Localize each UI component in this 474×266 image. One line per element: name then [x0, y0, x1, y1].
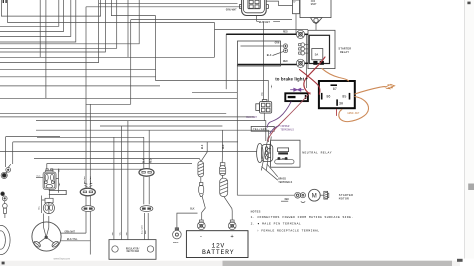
right scrollbar track — [465, 0, 474, 259]
fuse F2b capped — [220, 130, 226, 178]
black box B1 inner bar — [288, 96, 296, 98]
neutral relay coil box — [278, 148, 289, 152]
wire vertical v214 — [214, 23, 216, 58]
svg-text:86: 86 — [326, 95, 330, 99]
wire C1 feed — [86, 6, 242, 8]
wire horizontal H137 — [37, 136, 144, 138]
wire horizontal mid H130 — [36, 130, 268, 142]
svg-text:GRND: GRND — [173, 241, 179, 244]
svg-text:YEL/GRN: YEL/GRN — [253, 128, 267, 131]
black box B1 inner pin — [305, 95, 307, 99]
svg-text:BLU/WHT: BLU/WHT — [246, 116, 257, 119]
leader diagonal through connector — [261, 137, 271, 171]
svg-text:to brake light +: to brake light + — [275, 76, 308, 81]
ellipse connector EC4 — [140, 206, 153, 212]
wire EC3 to EC4 a — [143, 177, 145, 205]
neutral relay coil fill — [278, 152, 288, 154]
wire short row15 — [111, 0, 155, 16]
svg-text:GRND-OUT: GRND-OUT — [347, 112, 360, 115]
svg-text:YEL: YEL — [37, 205, 40, 210]
bottom scrollbar track — [0, 261, 460, 266]
switch loop box — [238, 41, 281, 66]
left edge black connectors — [1, 192, 7, 201]
wire horizontal H97 — [0, 97, 237, 99]
svg-text:COPPER: COPPER — [280, 125, 290, 128]
wire corner D — [0, 0, 117, 48]
wire magneto GRN/WHT — [61, 232, 86, 234]
svg-text:TERMINALS: TERMINALS — [280, 129, 294, 132]
wire left corner 2 — [13, 142, 238, 164]
svg-text:BLK/WHT: BLK/WHT — [140, 225, 143, 234]
starter motor M — [308, 189, 323, 201]
wire nest A — [1, 0, 100, 16]
wire vertical box link — [130, 20, 132, 105]
svg-text:1. CONNECTORS VIEWED FROM MATI: 1. CONNECTORS VIEWED FROM MATING SURFACE… — [251, 216, 354, 219]
connector D1 diamond below CDI — [311, 18, 323, 24]
wire cdi box down — [295, 14, 297, 34]
battery cable thick lower — [237, 64, 296, 66]
wire horizontal mid H121 — [36, 121, 266, 141]
svg-text:30: 30 — [339, 103, 343, 107]
svg-text:GRN/WHT: GRN/WHT — [65, 231, 76, 234]
wire top link to connector — [99, 2, 238, 4]
black box B1 — [285, 93, 308, 101]
label box YEL/GRN — [251, 126, 274, 131]
left edge plug SP3 — [3, 201, 8, 218]
svg-text:RED: RED — [222, 144, 225, 149]
wire horizontal H85 — [0, 85, 160, 87]
svg-text:BLK: BLK — [267, 54, 272, 57]
orange arrow scribble — [385, 84, 394, 89]
wire relay top feed — [215, 29, 309, 31]
battery terminal bolt T1 — [199, 183, 206, 221]
svg-text:RELAY: RELAY — [340, 51, 349, 54]
wire battery main vertical — [236, 65, 238, 196]
right scrollbar top dot — [467, 2, 470, 5]
wire horizontal H92 — [192, 91, 237, 93]
ring terminal RT3 motor — [295, 192, 301, 198]
starter relay diode terminals — [313, 61, 324, 65]
ring terminal RT1 — [296, 30, 304, 38]
regulator rectifier box — [109, 240, 156, 260]
wire brake feed vertical — [306, 34, 308, 88]
svg-text:NOTES: NOTES — [251, 211, 261, 214]
left edge terminal circles — [1, 164, 11, 178]
wire horizontal H163 — [47, 163, 192, 165]
red wire to neutral connector — [268, 93, 311, 142]
svg-text:BLK/WHT: BLK/WHT — [259, 20, 270, 24]
wire battery minus branch — [177, 213, 198, 228]
svg-text:RED: RED — [285, 198, 290, 201]
motor bolt — [300, 193, 305, 198]
ellipse connector EC2 — [82, 206, 95, 212]
starter relay outer box — [308, 30, 335, 68]
wire cdi link — [266, 1, 292, 5]
wire horizontal H158 — [34, 157, 199, 159]
wire vertical to lower connector 1 — [263, 21, 265, 99]
orange wire O2 loop — [339, 97, 369, 122]
svg-text:MOTOR: MOTOR — [339, 197, 349, 200]
svg-text:NEUTRAL RELAY: NEUTRAL RELAY — [302, 152, 332, 155]
wire horizontal H169 — [51, 168, 142, 170]
wire regulator feed 1 — [113, 137, 115, 239]
wire horizontal mid H113 — [0, 112, 226, 114]
wire corner E — [0, 0, 105, 52]
pin BLK — [273, 49, 288, 56]
wire CDI to starter relay — [315, 24, 317, 31]
left edge oval connector — [0, 225, 10, 254]
starter motor ground block — [324, 191, 329, 199]
ground lug — [173, 228, 182, 239]
wire EC1 EC2 link b — [89, 196, 91, 206]
svg-text:5A: 5A — [315, 54, 319, 57]
label box above SP2 — [49, 190, 66, 194]
wire regulator feed 3 — [127, 121, 129, 240]
svg-text:RED: RED — [283, 30, 288, 33]
wire nest E — [0, 0, 71, 36]
wire cdi bus — [131, 19, 292, 21]
wire nest C — [0, 0, 59, 26]
svg-text:BLK/YEL: BLK/YEL — [67, 238, 78, 241]
starter relay pin stubs — [299, 43, 310, 55]
wire below EC4 b — [147, 213, 149, 240]
wire horizontal box link H104 — [86, 103, 131, 105]
svg-text:2. ● MALE PIN TERMINAL: 2. ● MALE PIN TERMINAL — [251, 223, 302, 226]
svg-text:TERMINALS: TERMINALS — [278, 181, 292, 184]
svg-text:○ FEMALE RECEPTACLE TERMINAL: ○ FEMALE RECEPTACLE TERMINAL — [257, 230, 320, 233]
relay K1 pin 87 blade — [331, 84, 338, 86]
svg-text:BLK/WHT: BLK/WHT — [89, 175, 92, 184]
wire motor feed — [237, 194, 294, 196]
battery box — [186, 231, 248, 258]
relay K1 pin 85 blade — [349, 93, 351, 100]
relay K1 box — [319, 81, 355, 108]
motor underline mark — [281, 200, 288, 202]
bottom-left dot — [2, 262, 5, 265]
wire nest D — [0, 0, 64, 31]
ellipse connector EC1 — [80, 183, 95, 196]
relay K1 pin 86 blade — [321, 93, 323, 100]
svg-text:YEL: YEL — [270, 84, 273, 89]
wire vertical relay feed corner — [156, 16, 269, 102]
svg-text:BLK: BLK — [190, 207, 195, 210]
svg-text:BLK: BLK — [143, 158, 146, 163]
orange wire O3 — [355, 87, 385, 94]
bottom scrollbar thumb — [223, 261, 453, 266]
magneto circle — [32, 214, 61, 252]
red wire pin30 stub — [336, 109, 338, 115]
wire nest B — [8, 0, 215, 23]
wire corner C — [0, 0, 139, 44]
starter relay inner box — [309, 35, 329, 63]
right scrollbar separator — [464, 0, 466, 259]
battery post minus — [197, 220, 205, 230]
orange wire O1 — [322, 69, 349, 81]
svg-text:RED: RED — [149, 158, 152, 163]
svg-text:UNIT: UNIT — [311, 3, 317, 6]
right scrollbar thumb — [468, 184, 474, 191]
wire long vertical B2 — [89, 104, 91, 188]
svg-text:85: 85 — [342, 95, 346, 99]
wire horizontal H126 — [100, 125, 222, 127]
wire horizontal H76 — [0, 76, 156, 78]
svg-text:RECTIFIER: RECTIFIER — [127, 250, 140, 253]
fuse F2 main hatched — [220, 178, 233, 220]
wire corner left edge — [6, 137, 60, 168]
ring terminal RT2 — [296, 59, 304, 67]
wire corner G — [0, 0, 99, 63]
wire connector stub down — [257, 16, 281, 22]
svg-text:M: M — [312, 193, 317, 199]
svg-text:YEL: YEL — [57, 168, 60, 173]
wire corner F — [127, 0, 129, 57]
wire pair down EC3b — [148, 130, 150, 168]
spark plug SP2 — [42, 196, 55, 214]
wire horizontal H69 — [0, 68, 156, 70]
wire C2 bottom stub — [263, 113, 265, 121]
red wire R2 — [300, 70, 320, 95]
neutral relay outer box — [271, 140, 300, 167]
connector C1 top 4-pin — [239, 0, 268, 16]
wire horizontal mid H115 — [0, 116, 255, 118]
wire regulator feed 2 — [121, 126, 123, 240]
svg-text:www.fixya.com: www.fixya.com — [54, 257, 71, 260]
top-left corner tick — [3, 0, 4, 3]
svg-text:87: 87 — [333, 88, 337, 92]
svg-text:BLK: BLK — [201, 144, 204, 149]
red wire R1 — [304, 57, 325, 94]
svg-text:-: - — [199, 232, 202, 239]
wire long vertical A — [45, 0, 47, 98]
svg-text:GRN/WHT: GRN/WHT — [226, 7, 237, 11]
wire below EC2 b — [89, 212, 91, 241]
wire pair down EC3 — [143, 137, 145, 168]
wire magneto BLK/YEL — [61, 241, 90, 255]
wire EC1 EC2 link a — [85, 196, 87, 206]
wire long tap — [39, 0, 41, 57]
purple inline symbol — [291, 88, 304, 91]
motor bolt squiggle — [301, 202, 305, 203]
wire long vertical B — [85, 7, 87, 189]
corner mark — [457, 259, 463, 262]
starter relay coil box 5A — [312, 49, 323, 60]
svg-text:GRN: GRN — [275, 42, 280, 45]
wire below EC2 a — [85, 212, 87, 234]
CDI unit box — [300, 0, 331, 18]
svg-text:BLK: BLK — [37, 175, 42, 178]
purple wire to copper terminals — [267, 102, 291, 127]
relay unit box BP — [293, 0, 300, 14]
purple wire leader 2 — [270, 126, 279, 134]
svg-text:GRN/WHT: GRN/WHT — [83, 175, 86, 184]
connector C2 lower 4-pin — [256, 100, 272, 114]
wire nest F — [0, 0, 76, 42]
leader brass terminals — [262, 164, 278, 180]
wire horizontal relay feed H151 — [0, 150, 257, 152]
svg-text:BATTERY: BATTERY — [202, 249, 234, 256]
wire thick box left vertical — [225, 34, 227, 89]
neutral relay contacts — [275, 157, 294, 164]
fuse F1 — [198, 142, 207, 183]
connector C3 neutral relay — [257, 143, 273, 162]
svg-text:RED: RED — [283, 60, 288, 63]
wire below EC4 a — [144, 213, 146, 240]
ellipse connector EC3 — [139, 169, 154, 177]
wire horizontal H57 — [0, 56, 215, 58]
pin GRN — [241, 44, 288, 48]
svg-text:YEL: YEL — [58, 182, 61, 187]
battery post plus — [228, 220, 236, 230]
battery cable thick upper — [226, 33, 296, 35]
relay K1 pin 30 blade — [336, 99, 338, 105]
connector cluster CC1 — [36, 164, 59, 199]
svg-text:GRN: GRN — [261, 91, 264, 96]
wire EC3 to EC4 b — [148, 177, 150, 205]
